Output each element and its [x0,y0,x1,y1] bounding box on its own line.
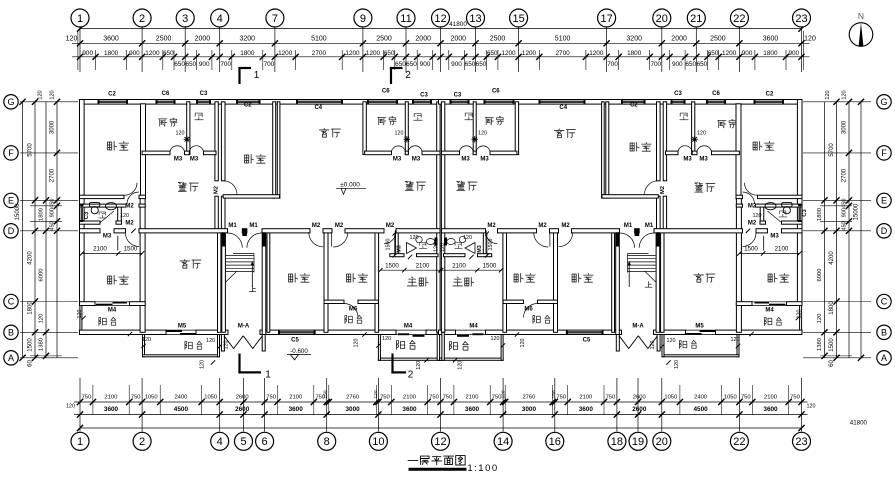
svg-text:1: 1 [254,70,260,81]
svg-text:2600: 2600 [235,406,250,413]
svg-text:2000: 2000 [671,35,687,42]
svg-text:22: 22 [733,436,745,448]
svg-text:750: 750 [741,395,751,401]
svg-text:120: 120 [176,131,185,137]
svg-text:120: 120 [458,361,464,370]
svg-text:120: 120 [382,336,391,342]
svg-text:120: 120 [478,131,487,137]
svg-text:17: 17 [600,13,612,25]
svg-text:120: 120 [807,404,816,410]
svg-text:M3: M3 [174,157,183,163]
svg-text:M3: M3 [699,157,708,163]
svg-text:120: 120 [410,235,419,241]
svg-text:2500: 2500 [710,35,726,42]
svg-text:1500: 1500 [385,262,399,269]
svg-text:M2: M2 [538,223,547,229]
svg-text:900: 900 [672,61,683,68]
svg-text:M2: M2 [748,221,757,227]
svg-text:23: 23 [795,436,807,448]
svg-text:1500: 1500 [744,246,758,253]
svg-text:2100: 2100 [416,262,430,269]
svg-text:2500: 2500 [156,35,172,42]
svg-text:150: 150 [323,390,329,398]
svg-text:1800: 1800 [104,50,119,57]
svg-text:1200: 1200 [366,50,381,57]
svg-text:120: 120 [753,213,762,219]
svg-text:C3: C3 [200,91,208,97]
svg-text:M3: M3 [480,157,489,163]
svg-text:900: 900 [842,208,848,217]
svg-text:1200: 1200 [145,50,160,57]
svg-text:3000: 3000 [842,120,848,134]
svg-text:120: 120 [373,390,379,398]
svg-text:1200: 1200 [589,50,604,57]
svg-text:450: 450 [842,199,848,208]
svg-text:900: 900 [50,208,56,217]
svg-text:2: 2 [405,70,411,81]
svg-text:10: 10 [372,436,384,448]
svg-text:650: 650 [174,61,185,68]
svg-text:2760: 2760 [522,395,535,401]
svg-text:120: 120 [77,310,83,319]
svg-text:M4: M4 [404,324,413,330]
svg-text:4200: 4200 [829,251,835,265]
svg-text:3600: 3600 [763,35,779,42]
svg-text:650: 650 [476,61,487,68]
svg-text:18: 18 [611,436,623,448]
svg-text:1380: 1380 [817,338,823,351]
svg-text:120: 120 [440,243,446,252]
svg-text:2100: 2100 [105,395,118,401]
svg-text:700: 700 [607,61,618,68]
svg-text:650: 650 [465,61,476,68]
svg-text:2: 2 [139,13,145,25]
svg-text:120: 120 [120,213,129,219]
svg-text:2100: 2100 [466,395,479,401]
svg-text:G: G [880,97,887,107]
svg-text:C2: C2 [108,91,116,97]
svg-text:120: 120 [416,361,422,370]
svg-text:D: D [8,226,15,236]
svg-text:8: 8 [324,436,330,448]
svg-text:120: 120 [142,337,151,343]
svg-text:±0.000: ±0.000 [340,182,360,189]
svg-text:1200: 1200 [278,50,293,57]
svg-text:900: 900 [420,61,431,68]
svg-text:650: 650 [685,61,696,68]
svg-text:M3: M3 [461,157,470,163]
svg-text:750: 750 [492,395,502,401]
svg-text:750: 750 [443,395,453,401]
svg-text:M4: M4 [108,308,117,314]
svg-text:A: A [8,353,14,363]
svg-text:120: 120 [66,404,75,410]
svg-text:450: 450 [842,221,848,230]
svg-text:E: E [8,196,14,206]
svg-text:120: 120 [500,390,506,398]
svg-text:120: 120 [491,336,500,342]
svg-text:G: G [7,97,14,107]
svg-text:M2: M2 [748,204,757,210]
svg-text:3600: 3600 [104,406,119,413]
svg-text:20: 20 [656,436,668,448]
svg-text:120: 120 [817,314,823,324]
svg-text:120: 120 [667,338,676,344]
svg-text:M2: M2 [312,223,321,229]
svg-text:M1: M1 [228,223,237,229]
svg-text:2100: 2100 [403,395,416,401]
svg-text:1500: 1500 [488,239,494,251]
svg-text:900: 900 [451,61,462,68]
svg-text:2400: 2400 [694,395,707,401]
svg-text:3000: 3000 [522,406,537,413]
svg-text:120: 120 [206,338,215,344]
svg-text:2700: 2700 [50,168,56,182]
svg-text:M3: M3 [393,157,402,163]
svg-text:120: 120 [731,337,740,343]
svg-text:60: 60 [829,360,835,367]
svg-text:M1: M1 [624,223,633,229]
svg-text:1800: 1800 [39,208,45,221]
svg-text:1380: 1380 [39,338,45,351]
svg-text:1800: 1800 [240,50,255,57]
svg-text:120: 120 [804,35,816,42]
svg-text:1800: 1800 [763,50,778,57]
svg-text:12: 12 [434,13,446,25]
svg-text:15000: 15000 [15,203,21,220]
svg-text:M3: M3 [477,245,483,253]
svg-text:22: 22 [733,13,745,25]
svg-text:2100: 2100 [289,395,302,401]
svg-text:15: 15 [512,13,524,25]
svg-text:900: 900 [742,50,753,57]
svg-text:19: 19 [632,436,644,448]
svg-text:21: 21 [690,13,702,25]
svg-text:A: A [881,353,887,363]
svg-text:1200: 1200 [722,50,737,57]
svg-text:M6: M6 [524,307,533,313]
svg-text:20: 20 [656,13,668,25]
svg-text:2600: 2600 [236,395,249,401]
svg-text:B: B [8,327,14,337]
svg-text:2500: 2500 [376,35,392,42]
svg-text:2760: 2760 [346,395,359,401]
svg-text:M1: M1 [645,223,654,229]
svg-text:2700: 2700 [312,50,327,57]
svg-text:1050: 1050 [724,395,737,401]
svg-text:4200: 4200 [28,251,34,265]
svg-text:120: 120 [224,341,230,350]
svg-text:2400: 2400 [174,395,187,401]
svg-text:1050: 1050 [664,395,677,401]
svg-text:7: 7 [272,13,278,25]
svg-text:4500: 4500 [174,406,189,413]
svg-text:C5: C5 [291,338,299,344]
svg-text:120: 120 [520,339,526,348]
svg-text:3600: 3600 [103,35,119,42]
svg-text:M1: M1 [249,223,258,229]
svg-text:1:100: 1:100 [467,463,498,474]
svg-text:C4: C4 [314,105,322,111]
svg-text:120: 120 [66,35,78,42]
svg-text:M-A: M-A [238,324,250,330]
svg-text:450: 450 [50,221,56,230]
svg-text:2600: 2600 [632,406,647,413]
svg-text:M3: M3 [396,245,402,253]
svg-text:1200: 1200 [345,50,360,57]
svg-text:M3: M3 [190,157,199,163]
svg-text:2100: 2100 [764,395,777,401]
svg-text:D: D [881,226,888,236]
svg-text:650: 650 [697,61,708,68]
svg-text:C6: C6 [382,89,390,95]
svg-text:750: 750 [429,395,439,401]
svg-text:M3: M3 [683,157,692,163]
svg-text:5100: 5100 [311,35,327,42]
svg-text:3200: 3200 [240,35,256,42]
svg-text:1800: 1800 [829,301,835,315]
svg-text:2700: 2700 [842,168,848,182]
svg-text:750: 750 [556,395,566,401]
svg-text:2100: 2100 [452,262,466,269]
svg-text:5: 5 [240,436,246,448]
svg-text:3600: 3600 [763,406,778,413]
svg-text:2100: 2100 [93,246,107,253]
svg-text:C4: C4 [559,105,567,111]
svg-text:6000: 6000 [817,269,823,282]
svg-text:2000: 2000 [451,35,467,42]
svg-text:4500: 4500 [693,406,708,413]
svg-text:M5: M5 [695,324,704,330]
svg-text:C6: C6 [162,91,170,97]
svg-text:750: 750 [266,395,276,401]
svg-text:M3: M3 [103,234,112,240]
svg-text:120: 120 [354,339,360,348]
svg-text:N: N [858,11,864,21]
svg-text:120: 120 [697,131,706,137]
svg-text:6: 6 [262,436,268,448]
svg-text:750: 750 [131,395,141,401]
svg-text:M4: M4 [765,308,774,314]
svg-text:750: 750 [606,395,616,401]
svg-text:C6: C6 [492,89,500,95]
svg-text:2000: 2000 [415,35,431,42]
svg-text:900: 900 [199,61,210,68]
svg-text:2100: 2100 [775,246,789,253]
svg-text:C2: C2 [766,91,774,97]
svg-text:M-A: M-A [632,324,644,330]
svg-text:M5: M5 [178,324,187,330]
svg-text:M2: M2 [386,223,395,229]
svg-text:C3: C3 [84,211,90,219]
svg-text:900: 900 [82,50,93,57]
svg-text:3200: 3200 [626,35,642,42]
svg-text:M3: M3 [412,157,421,163]
svg-text:C5: C5 [583,338,591,344]
svg-text:700: 700 [264,61,275,68]
svg-text:1800: 1800 [627,50,642,57]
svg-text:2000: 2000 [195,35,211,42]
svg-text:3600: 3600 [289,406,304,413]
svg-text:2500: 2500 [490,35,506,42]
svg-text:120: 120 [39,314,45,324]
svg-text:3600: 3600 [402,406,417,413]
svg-text:1800: 1800 [817,208,823,221]
svg-text:1: 1 [265,370,271,381]
svg-text:120: 120 [842,90,848,99]
svg-text:M2: M2 [335,223,344,229]
svg-text:16: 16 [549,436,561,448]
svg-text:650: 650 [487,50,498,57]
svg-text:120: 120 [50,90,56,99]
svg-text:1500: 1500 [124,246,138,253]
svg-text:3600: 3600 [465,406,480,413]
svg-text:900: 900 [788,50,799,57]
svg-text:60: 60 [28,360,34,367]
svg-text:-0.600: -0.600 [290,348,308,355]
svg-text:750: 750 [380,395,390,401]
svg-text:120: 120 [434,243,440,252]
svg-text:C: C [881,297,888,307]
svg-text:11: 11 [400,13,411,25]
svg-text:3600: 3600 [579,406,594,413]
svg-text:5100: 5100 [555,35,571,42]
svg-text:120: 120 [200,360,206,369]
svg-text:C: C [8,297,15,307]
svg-text:1500: 1500 [483,262,497,269]
svg-text:6000: 6000 [39,269,45,282]
svg-text:4: 4 [217,436,223,448]
svg-text:650: 650 [406,61,417,68]
svg-text:M2: M2 [660,186,666,194]
svg-text:650: 650 [185,61,196,68]
svg-text:3000: 3000 [50,120,56,134]
svg-text:M2: M2 [125,204,134,210]
svg-text:2100: 2100 [579,395,592,401]
svg-text:C3: C3 [674,91,682,97]
svg-text:1800: 1800 [28,301,34,315]
svg-text:120: 120 [825,90,831,99]
svg-text:M4: M4 [469,324,478,330]
svg-text:3000: 3000 [345,406,360,413]
svg-text:M2: M2 [125,221,134,227]
svg-text:120: 120 [395,131,404,137]
svg-text:M2: M2 [214,186,220,194]
svg-text:B: B [881,327,887,337]
svg-text:120: 120 [674,360,680,369]
svg-text:4: 4 [217,13,223,25]
svg-text:1200: 1200 [522,50,537,57]
svg-text:750: 750 [790,395,800,401]
svg-text:700: 700 [220,61,231,68]
svg-text:M2: M2 [561,223,570,229]
svg-text:1200: 1200 [501,50,516,57]
svg-text:F: F [8,148,14,158]
svg-text:120: 120 [650,341,656,350]
svg-text:C3: C3 [420,92,428,98]
svg-text:C2: C2 [244,102,252,108]
svg-text:1: 1 [77,436,83,448]
svg-text:M6: M6 [349,307,358,313]
svg-text:650: 650 [384,50,395,57]
svg-text:M2: M2 [487,223,496,229]
svg-text:E: E [881,196,887,206]
svg-text:2700: 2700 [555,50,570,57]
svg-text:750: 750 [82,395,92,401]
svg-text:150: 150 [551,390,557,398]
svg-text:15000: 15000 [854,203,860,220]
svg-text:M3: M3 [770,234,779,240]
svg-text:1050: 1050 [145,395,158,401]
svg-text:13: 13 [469,13,481,25]
svg-text:5700: 5700 [829,143,835,157]
svg-text:900: 900 [129,50,140,57]
svg-text:650: 650 [163,50,174,57]
svg-text:3: 3 [182,13,188,25]
svg-text:120: 120 [463,235,472,241]
svg-text:41800: 41800 [850,420,868,427]
svg-text:C2: C2 [630,102,638,108]
svg-text:1: 1 [77,13,83,25]
svg-text:14: 14 [497,436,509,448]
svg-text:120: 120 [38,90,44,99]
svg-text:41800: 41800 [449,21,467,28]
svg-text:C3: C3 [454,92,462,98]
svg-text:23: 23 [795,13,807,25]
svg-text:650: 650 [708,50,719,57]
svg-text:2600: 2600 [633,395,646,401]
svg-text:F: F [881,148,887,158]
svg-text:9: 9 [360,13,366,25]
svg-text:450: 450 [50,199,56,208]
svg-text:700: 700 [650,61,661,68]
svg-text:1050: 1050 [204,395,217,401]
svg-text:1500: 1500 [386,239,392,251]
svg-text:1500: 1500 [829,338,835,352]
svg-text:C3: C3 [802,209,808,217]
svg-text:2: 2 [139,436,145,448]
svg-text:C6: C6 [712,91,720,97]
svg-text:2: 2 [408,370,414,381]
svg-text:5700: 5700 [28,143,34,157]
svg-text:12: 12 [434,436,446,448]
svg-text:1500: 1500 [28,338,34,352]
